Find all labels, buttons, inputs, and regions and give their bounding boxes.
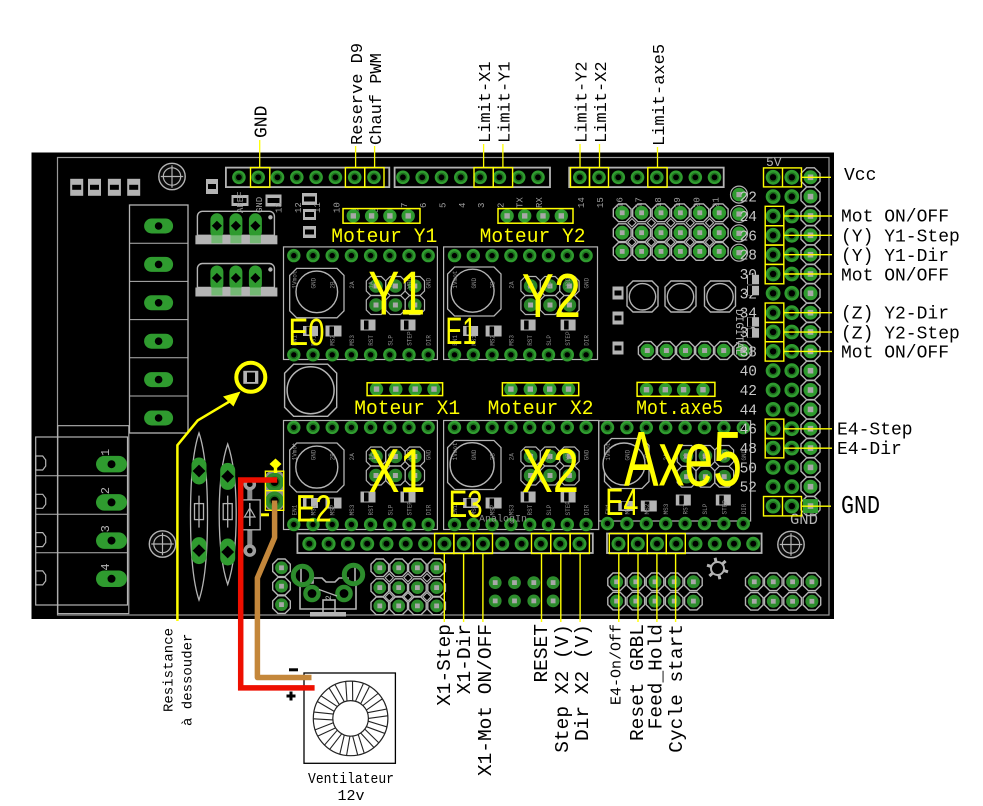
right header column 1 pins (22-52 even): [766, 170, 781, 514]
svg-text:Mot ON/OFF: Mot ON/OFF: [841, 344, 949, 364]
svg-text:2B: 2B: [330, 281, 337, 289]
SMD connector pads below strip1: [232, 195, 282, 207]
svg-text:15: 15: [596, 197, 606, 208]
AUX 6x3 pad grid: [613, 204, 728, 260]
svg-text:24: 24: [740, 210, 757, 226]
header strip J2 pins: [396, 171, 545, 185]
SMD pads over numbers 30/32 and 36/38: [747, 275, 759, 338]
svg-text:22: 22: [740, 191, 757, 207]
svg-text:13: 13: [275, 202, 285, 213]
SMD resistor column R-C group: [302, 193, 317, 238]
svg-text:Feed_Hold: Feed_Hold: [646, 624, 668, 729]
fuse F1: [191, 433, 208, 600]
svg-text:Resistance: Resistance: [161, 628, 177, 712]
svg-text:DIR: DIR: [584, 335, 591, 346]
jumper/switch component SW1: [293, 564, 362, 617]
fuse F2: [219, 444, 236, 585]
right header pin numbers 22-52: [740, 191, 757, 497]
svg-text:SLP: SLP: [702, 503, 709, 514]
svg-text:RX: RX: [535, 197, 545, 208]
yellow box GND pin strip1: [251, 168, 270, 188]
svg-text:14: 14: [577, 197, 587, 208]
resistor highlight circle: [236, 363, 265, 392]
connector K1 (3-pin): [195, 211, 277, 244]
svg-text:SLP: SLP: [546, 335, 553, 346]
svg-text:DIR: DIR: [426, 335, 433, 346]
SMD pads top-left group: [70, 179, 218, 196]
header strip J1 pins: [232, 171, 381, 185]
right header column 2 pins: [784, 170, 799, 514]
svg-text:1Vmot: 1Vmot: [452, 442, 459, 460]
svg-text:E4-Dir: E4-Dir: [837, 440, 902, 460]
svg-text:11: 11: [313, 202, 323, 213]
yellow boxes rows 34-38: [765, 303, 784, 361]
svg-text:(Z) Y2-Step: (Z) Y2-Step: [841, 325, 960, 345]
svg-text:E4-Step: E4-Step: [837, 421, 913, 441]
svg-text:MS3: MS3: [663, 503, 670, 514]
svg-text:Limit-Y2: Limit-Y2: [574, 61, 593, 143]
svg-text:2A: 2A: [508, 453, 515, 461]
svg-text:E3: E3: [449, 484, 483, 526]
Mot.axe5 connector: [637, 382, 715, 396]
bottom strip B outline: [607, 534, 762, 554]
svg-text:GND: GND: [426, 449, 433, 460]
svg-text:2A: 2A: [349, 453, 356, 461]
svg-text:Limit-X1: Limit-X1: [477, 61, 496, 143]
header strip J2 pin labels: [400, 197, 545, 208]
svg-text:GND: GND: [584, 277, 591, 288]
svg-text:RST: RST: [368, 335, 375, 346]
svg-text:STEP: STEP: [407, 331, 414, 346]
yellow boxes rows 46,48: [765, 419, 784, 438]
yellow box GND row: [764, 497, 802, 516]
yellow boxes pins 9,8: [345, 168, 364, 188]
svg-text:AnalogIn: AnalogIn: [479, 514, 527, 526]
svg-text:7: 7: [400, 203, 410, 208]
svg-text:RST: RST: [527, 335, 534, 346]
Moteur Y2 connector: [498, 209, 573, 224]
svg-text:(Z) Y2-Dir: (Z) Y2-Dir: [841, 305, 949, 325]
svg-text:E4: E4: [605, 482, 638, 524]
svg-text:GND: GND: [471, 277, 478, 288]
svg-text:12v: 12v: [337, 788, 364, 805]
DIGITAL header row: [638, 342, 751, 360]
5x2 hex pad block GRBL: [608, 573, 702, 610]
svg-text:E2: E2: [296, 489, 332, 531]
svg-text:2B: 2B: [490, 453, 497, 461]
header strip J1 pin labels: [236, 191, 381, 213]
stepper driver module X2: [444, 421, 599, 532]
svg-text:SLP: SLP: [387, 335, 394, 346]
svg-text:GND: GND: [426, 277, 433, 288]
svg-text:GND: GND: [471, 449, 478, 460]
svg-text:GND: GND: [841, 491, 880, 521]
svg-text:X1-Dir: X1-Dir: [454, 624, 476, 694]
svg-text:4: 4: [458, 203, 468, 208]
svg-text:3: 3: [477, 203, 487, 208]
svg-text:46: 46: [740, 423, 757, 439]
minus marker (yellow): [261, 513, 269, 516]
capacitor C4 (standalone): [285, 364, 337, 416]
svg-text:1Vmot: 1Vmot: [291, 442, 298, 460]
bottom strip A pins: [302, 537, 586, 551]
svg-text:3: 3: [99, 525, 113, 532]
svg-text:50: 50: [740, 461, 757, 477]
SMD pads right of driver Y2: [613, 287, 624, 355]
mounting hole bottom-right: [778, 531, 804, 557]
svg-text:MS3: MS3: [349, 335, 356, 346]
Moteur Y1 connector: [343, 209, 420, 224]
yellow boxes rows 24-30: [765, 206, 784, 283]
svg-text:10: 10: [332, 202, 342, 213]
svg-text:44: 44: [740, 403, 757, 419]
yellow boxes E4-On/Off etc: [609, 534, 685, 623]
svg-text:6: 6: [419, 203, 429, 208]
yellow box pin 18: [648, 168, 667, 188]
minus marker (black): [289, 668, 298, 671]
svg-text:E4-On/Off: E4-On/Off: [609, 624, 626, 705]
svg-text:MS3: MS3: [508, 335, 515, 346]
PCB board outline: [32, 153, 835, 620]
yellow boxes pins 3,2: [474, 168, 493, 188]
svg-text:12: 12: [294, 202, 304, 213]
Moteur X1 connector: [367, 382, 443, 395]
fan (Ventilateur): [304, 673, 395, 763]
bottom strip B pins: [612, 537, 761, 551]
mounting hole top-left: [159, 163, 185, 189]
svg-text:Vcc: Vcc: [844, 166, 876, 186]
svg-text:à dessouder: à dessouder: [181, 634, 197, 726]
header strip J3 pin labels: [577, 197, 722, 208]
svg-text:Moteur Y2: Moteur Y2: [480, 226, 586, 249]
svg-text:Dir X2 (V): Dir X2 (V): [572, 624, 594, 741]
yellow box 5V/Vcc: [764, 168, 802, 187]
svg-text:1: 1: [99, 449, 113, 456]
header strip J3 (14..21) outline: [569, 168, 724, 188]
svg-text:52: 52: [740, 481, 757, 497]
svg-text:DIR: DIR: [584, 504, 591, 515]
svg-text:2: 2: [99, 487, 113, 494]
svg-text:2B: 2B: [490, 281, 497, 289]
red wire (+12v): [241, 480, 315, 688]
header strip J2 (7..RX) outline: [395, 168, 550, 188]
svg-text:2A: 2A: [349, 281, 356, 289]
svg-text:GND: GND: [790, 511, 818, 529]
svg-text:X1: X1: [369, 437, 426, 506]
4x3 hex pad grid bottom: [371, 559, 445, 615]
fan supply pads yellow box: [265, 471, 284, 510]
stepper driver module Y1: [284, 247, 438, 362]
svg-text:MS2: MS2: [644, 503, 651, 514]
right header column 3 female socket: [801, 168, 820, 516]
svg-text:Axe5: Axe5: [624, 415, 742, 503]
svg-text:1Vmot: 1Vmot: [452, 271, 459, 289]
svg-text:5: 5: [439, 203, 449, 208]
svg-text:Chauf PWM: Chauf PWM: [368, 53, 387, 145]
svg-text:Ventilateur: Ventilateur: [308, 771, 394, 788]
svg-text:E1: E1: [446, 311, 477, 353]
svg-text:Step X2 (V): Step X2 (V): [552, 624, 574, 753]
yellow leader lines top: [260, 140, 658, 168]
header strip J1 (AREF..8) outline: [226, 168, 389, 188]
svg-text:GND: GND: [311, 449, 318, 460]
diode D1: [241, 478, 261, 557]
svg-text:(Y) Y1-Dir: (Y) Y1-Dir: [841, 247, 949, 267]
svg-text:MS3: MS3: [349, 504, 356, 515]
connector K2 (3-pin): [195, 264, 277, 297]
svg-text:RESET: RESET: [531, 624, 553, 683]
svg-text:GND: GND: [584, 449, 591, 460]
4x2 round pad grid bottom-middle: [489, 576, 560, 607]
svg-text:Moteur X2: Moteur X2: [488, 398, 594, 421]
4x2 hex pad block bottom-right: [746, 573, 821, 610]
mounting hole bottom-left: [149, 531, 175, 557]
svg-text:2B: 2B: [330, 453, 337, 461]
stepper driver module Axe5: [599, 421, 751, 531]
hex pad column bottom-left: [273, 559, 291, 613]
stepper driver module X1: [284, 421, 438, 532]
svg-text:1Vmot: 1Vmot: [605, 443, 612, 461]
svg-text:Mot ON/OFF: Mot ON/OFF: [841, 208, 949, 228]
AUX pad column (rows 22-28): [731, 186, 748, 261]
svg-text:Y1: Y1: [368, 259, 425, 328]
orange wire (-): [257, 501, 311, 678]
svg-text:GND: GND: [253, 106, 273, 138]
svg-text:MS2: MS2: [490, 335, 497, 346]
yellow boxes pins 14,15: [571, 168, 590, 188]
svg-text:DIR: DIR: [741, 503, 748, 514]
svg-text:28: 28: [740, 249, 757, 265]
svg-text:(Y) Y1-Step: (Y) Y1-Step: [841, 228, 960, 248]
svg-text:Y2: Y2: [522, 262, 581, 331]
svg-text:Mot ON/OFF: Mot ON/OFF: [841, 267, 949, 287]
svg-text:GND: GND: [311, 277, 318, 288]
svg-text:Cycle start: Cycle start: [666, 624, 688, 753]
capacitors C1 C2 C3: [627, 281, 736, 312]
svg-text:X1-Step: X1-Step: [434, 624, 456, 706]
svg-text:2: 2: [496, 203, 506, 208]
svg-text:X1-Mot ON/OFF: X1-Mot ON/OFF: [475, 624, 497, 776]
plus marker (yellow): [270, 459, 282, 470]
svg-text:38: 38: [740, 345, 757, 361]
yellow boxes X1-Step/Dir/Mot: [435, 534, 493, 623]
stepper driver module Y2: [444, 247, 598, 362]
svg-text:TX: TX: [516, 197, 526, 208]
svg-text:GND: GND: [255, 197, 265, 213]
svg-text:2A: 2A: [508, 281, 515, 289]
silkscreen board border: [58, 158, 830, 616]
power terminal block TB1: [36, 426, 129, 614]
svg-text:Moteur Y1: Moteur Y1: [331, 226, 437, 249]
svg-text:DIR: DIR: [426, 504, 433, 515]
svg-text:48: 48: [740, 442, 757, 458]
svg-text:Reserve D9: Reserve D9: [349, 43, 368, 145]
yellow leader lines right: [784, 177, 832, 506]
header strip J3 pins: [573, 171, 721, 185]
svg-text:40: 40: [740, 365, 757, 381]
svg-text:26: 26: [740, 229, 757, 245]
svg-text:RST: RST: [683, 503, 690, 514]
svg-text:MS2: MS2: [330, 335, 337, 346]
svg-text:42: 42: [740, 384, 757, 400]
left connector block (6 oval pads): [130, 205, 189, 433]
svg-text:Moteur X1: Moteur X1: [354, 398, 460, 421]
Moteur X2 connector: [502, 382, 578, 395]
svg-text:X2: X2: [522, 437, 579, 506]
svg-text:4: 4: [99, 563, 113, 570]
svg-text:2: 2: [325, 595, 334, 600]
svg-text:Limit-axe5: Limit-axe5: [651, 44, 670, 146]
plus marker (black): [287, 695, 296, 698]
svg-text:STEP: STEP: [565, 331, 572, 346]
svg-text:1Vmot: 1Vmot: [291, 271, 298, 289]
svg-text:Limit-X2: Limit-X2: [593, 61, 612, 143]
svg-text:E0: E0: [289, 312, 325, 354]
resistor pointer line: [177, 400, 232, 621]
bottom strip A outline: [297, 534, 592, 554]
svg-text:AREF: AREF: [236, 191, 246, 213]
yellow boxes RESET/StepX2/DirX2: [532, 534, 590, 623]
gear silk icon: [707, 558, 728, 579]
svg-text:Limit-Y1: Limit-Y1: [497, 61, 516, 143]
